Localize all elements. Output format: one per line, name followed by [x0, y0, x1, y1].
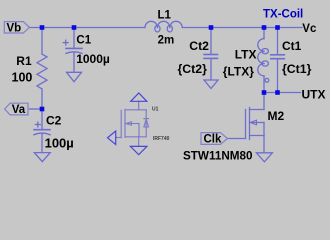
U1 mid stub [125, 123, 139, 125]
U1 source drop [138, 137, 140, 147]
ground below C1 [67, 72, 82, 81]
junction LTX top [262, 25, 267, 30]
capacitor Ct2 [204, 55, 218, 59]
svg-text:Vc: Vc [302, 23, 317, 35]
U1 drain riser [138, 101, 140, 110]
svg-text:Va: Va [12, 104, 26, 116]
svg-text:Ct1: Ct1 [282, 39, 302, 53]
capacitor C1 [63, 40, 82, 53]
svg-text:M2: M2 [268, 109, 285, 123]
junction LTX bottom / M2 drain [262, 90, 267, 95]
svg-text:Vb: Vb [7, 22, 22, 34]
U1 body diode [145, 110, 147, 137]
U1 bottom stub [125, 136, 146, 138]
U1 gate pin triangle [108, 131, 116, 145]
port flag Va [5, 103, 28, 115]
M2 drain lead [263, 93, 265, 110]
ground below C2 [34, 153, 50, 162]
wire Ct2 top lead [210, 28, 212, 55]
capacitor Ct1 [271, 55, 285, 59]
wire R1 top lead [41, 28, 43, 55]
inductor LTX [258, 28, 269, 93]
svg-text:100µ: 100µ [45, 135, 74, 150]
inductor L1 [145, 21, 182, 32]
junction Ct1 top [275, 25, 280, 30]
M2 source stub [250, 135, 265, 137]
symbol U1 (IRF740 preview) [116, 101, 149, 146]
wire Va row [30, 108, 43, 110]
svg-text:L1: L1 [158, 10, 172, 22]
wire Clk to gate [228, 138, 246, 140]
U1 gate lead [116, 137, 122, 139]
port flag Vb [4, 22, 29, 33]
wire C2 bottom lead [41, 134, 43, 153]
wire Ct2 bottom lead [210, 58, 212, 79]
junction Ct2 [209, 25, 214, 30]
junction Va [40, 107, 45, 112]
junction C1 [72, 25, 77, 30]
wire bottom rail to UTX [264, 92, 301, 94]
svg-text:100: 100 [12, 70, 33, 84]
MOSFET M2 [246, 93, 265, 153]
svg-text:IRF740: IRF740 [153, 136, 170, 142]
wire Ct1 bottom lead [277, 59, 279, 93]
wire C1 bottom lead [73, 52, 75, 72]
svg-text:C1: C1 [76, 34, 91, 46]
svg-text:UTX: UTX [302, 88, 326, 102]
svg-text:{LTX}: {LTX} [223, 65, 254, 79]
M2 source lead [263, 136, 265, 153]
capacitor C2 [34, 122, 50, 135]
wire R1 bottom lead [41, 89, 43, 109]
ground below Ct2 [204, 80, 218, 89]
svg-text:Clk: Clk [204, 133, 223, 145]
svg-text:{Ct2}: {Ct2} [178, 62, 208, 76]
M2 gate bar [245, 110, 247, 139]
junction Ct1 bottom / UTX [275, 90, 280, 95]
U1 gate bar [120, 110, 122, 137]
U1 right vertical [138, 124, 140, 137]
M2 body stub [250, 122, 265, 124]
U1 channel bar [124, 109, 126, 137]
wire top rail right of L1 [182, 27, 302, 29]
node junctions [40, 25, 280, 111]
M2 body arrow [250, 120, 256, 125]
wire C2 top lead [41, 109, 43, 130]
M2 channel bar [249, 108, 251, 140]
svg-text:U1: U1 [152, 107, 159, 113]
junction Vb/R1 [40, 25, 45, 30]
svg-text:LTX: LTX [235, 48, 257, 62]
U1 pin triangles [108, 93, 147, 155]
ground below M2 [256, 153, 272, 162]
svg-text:R1: R1 [16, 54, 32, 68]
port flag Clk [201, 133, 228, 145]
svg-text:{Ct1}: {Ct1} [282, 62, 312, 76]
M2 drain stub [250, 109, 265, 111]
M2 body-source vertical [263, 123, 265, 136]
U1 arrow [126, 122, 132, 126]
svg-text:1000µ: 1000µ [76, 52, 110, 66]
svg-text:TX-Coil: TX-Coil [263, 9, 303, 21]
U1 source pin triangle [130, 146, 147, 154]
svg-text:2m: 2m [158, 35, 175, 47]
wire C1 top lead [73, 28, 75, 49]
U1 drain pin triangle [131, 93, 147, 101]
svg-text:C2: C2 [46, 113, 62, 127]
U1 top stub [125, 109, 146, 111]
wire top rail left of L1 [29, 27, 145, 29]
svg-text:STW11NM80: STW11NM80 [183, 150, 253, 163]
resistor R1 [37, 54, 47, 89]
wire Ct1 top lead [277, 28, 279, 55]
svg-text:Ct2: Ct2 [189, 39, 209, 53]
